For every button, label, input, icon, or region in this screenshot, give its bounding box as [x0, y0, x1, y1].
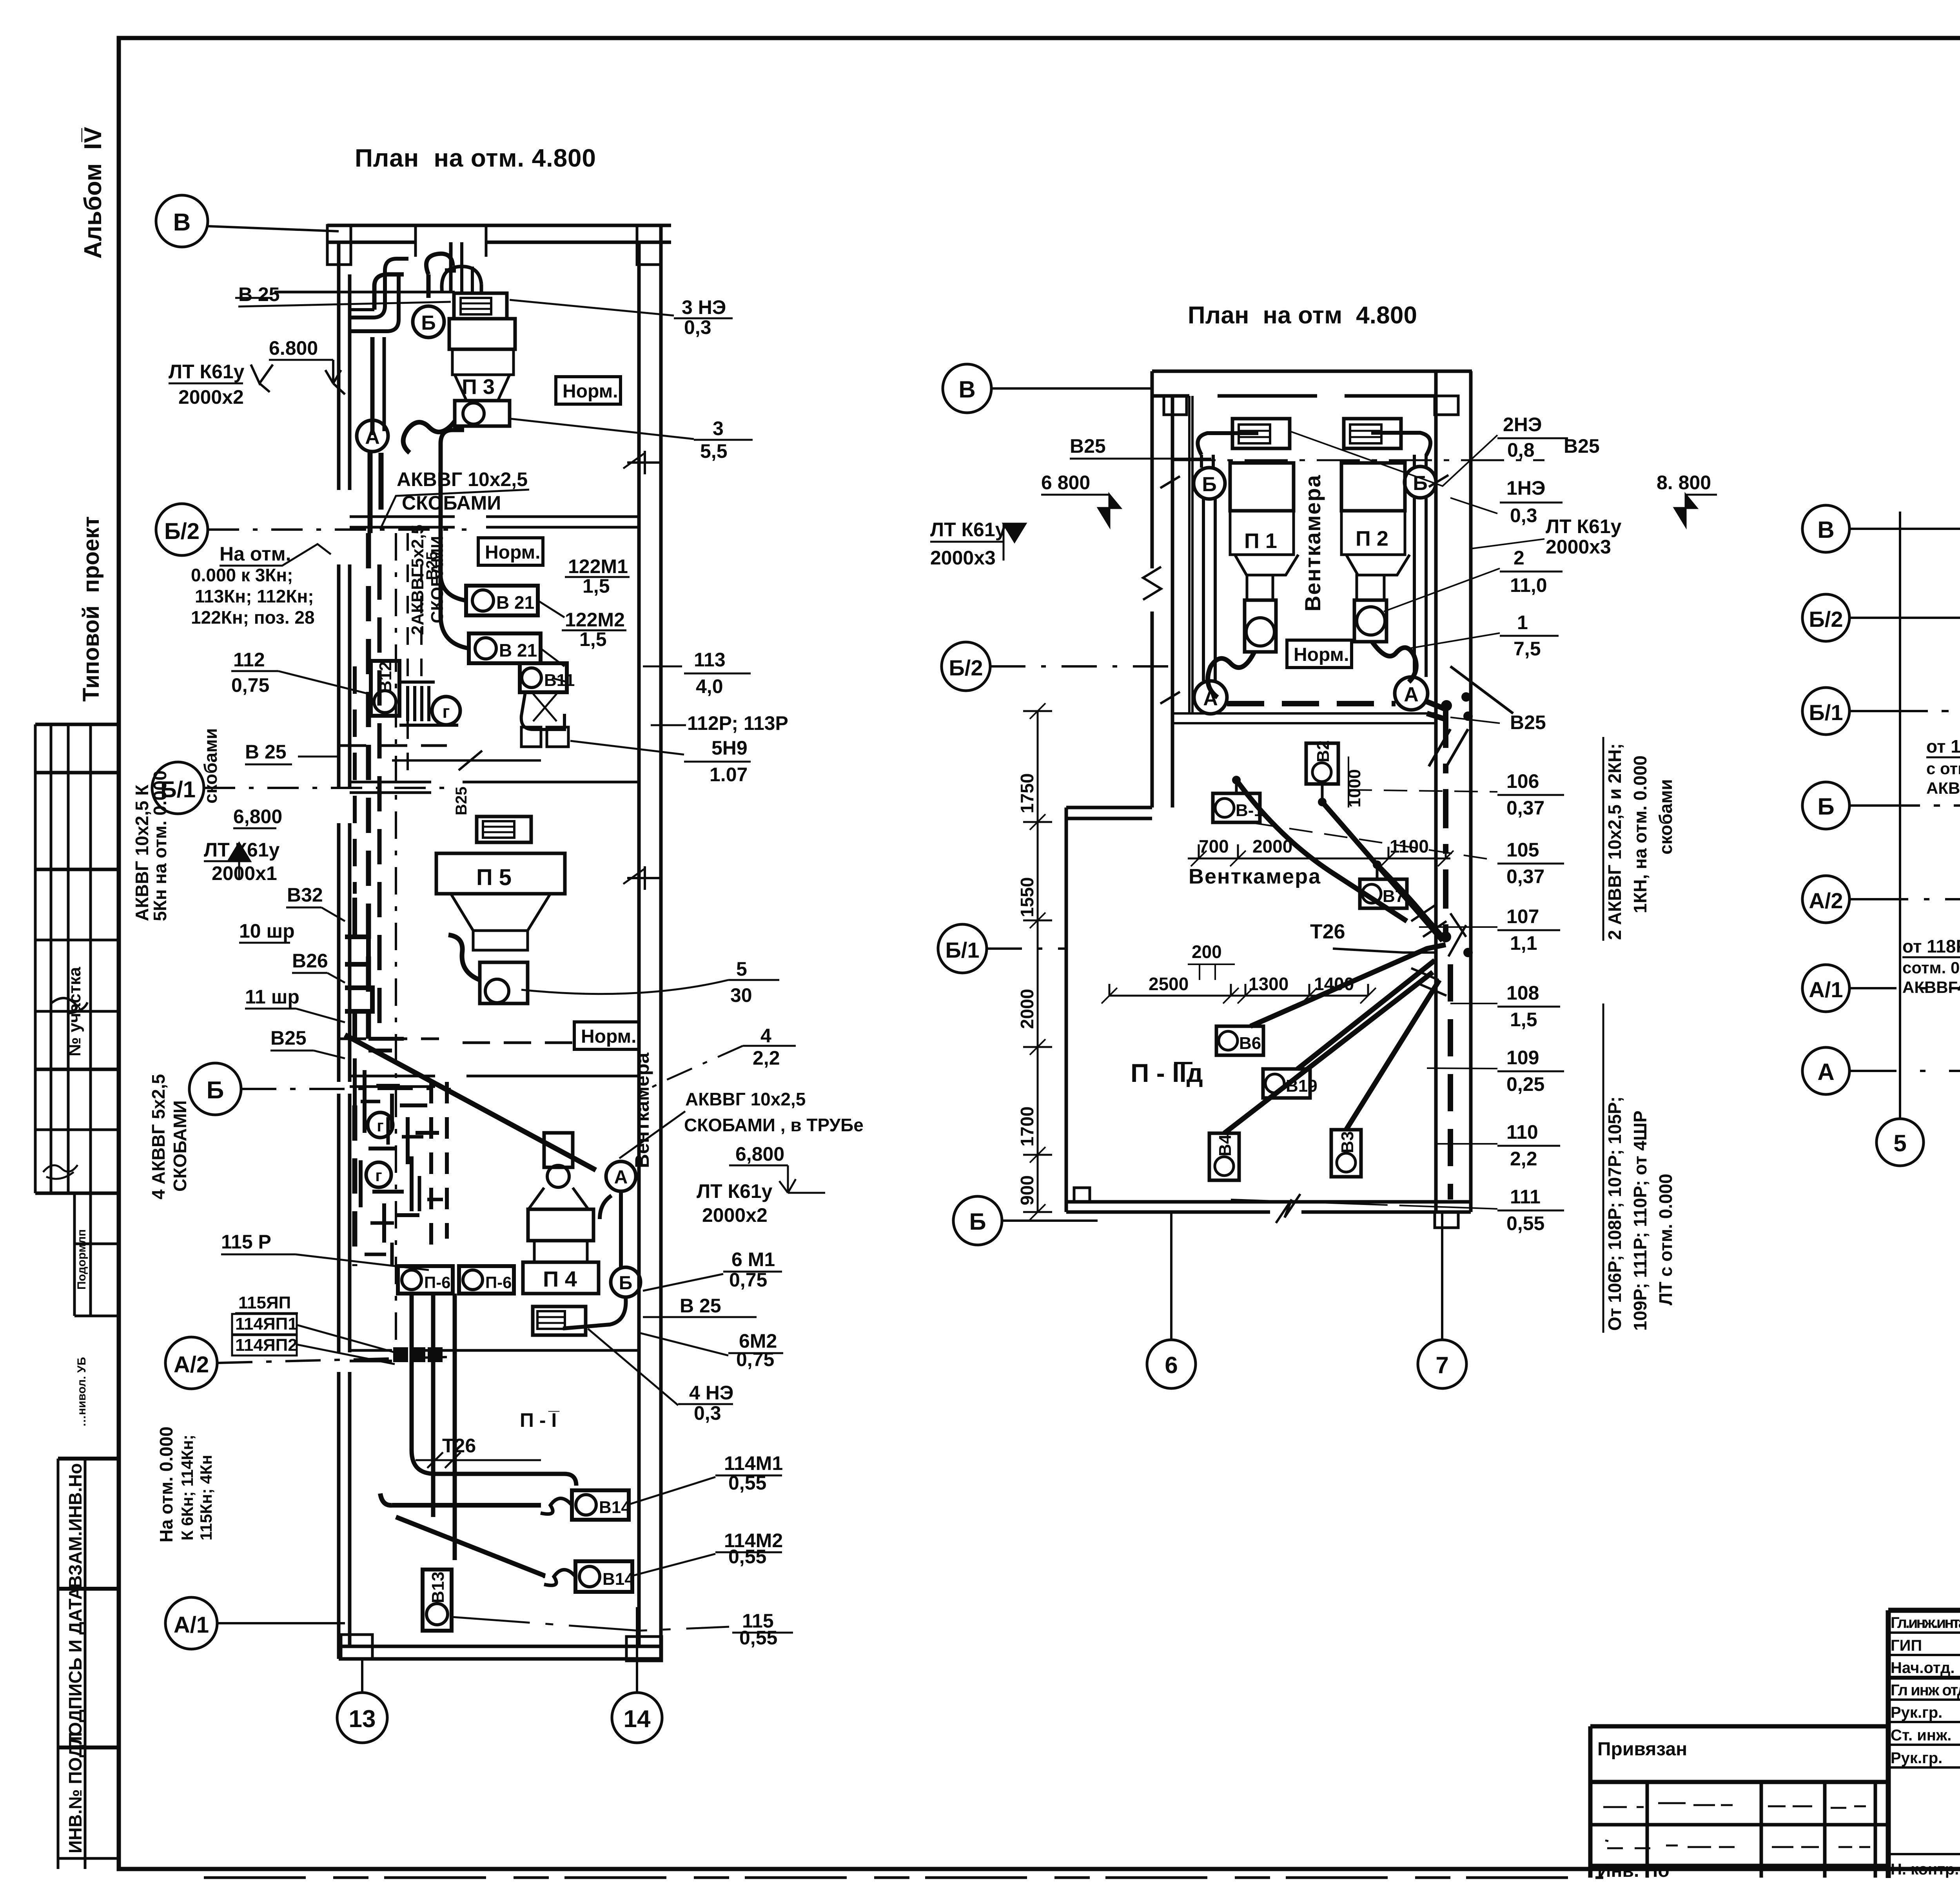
equip box V2 — [1306, 740, 1338, 806]
partition under A — [1172, 713, 1436, 723]
long diagonal cable — [345, 1035, 596, 1170]
svg-text:1,5: 1,5 — [579, 628, 607, 650]
svg-text:10 шр: 10 шр — [239, 920, 295, 942]
cable A-B risers at P4 — [563, 1191, 626, 1328]
svg-text:В25: В25 — [1510, 711, 1546, 733]
rotated margin captions — [65, 967, 85, 1853]
svg-text:В 25: В 25 — [680, 1295, 721, 1317]
svg-text:4: 4 — [760, 1025, 771, 1047]
thick cable run at A level — [1227, 702, 1446, 933]
dimension chain vertical — [1017, 703, 1058, 1294]
T26 dim — [416, 1452, 541, 1468]
svg-text:сотм. 0.000: сотм. 0.000 — [1902, 958, 1960, 977]
svg-text:3 НЭ: 3 НЭ — [682, 296, 726, 318]
axis circle 6 — [1147, 1212, 1196, 1388]
svg-text:ЛТ К61у: ЛТ К61у — [1546, 515, 1622, 537]
svg-text:от 118Р: от 118Р — [1902, 936, 1960, 956]
svg-text:А/2: А/2 — [174, 1352, 209, 1377]
svg-text:1550: 1550 — [1017, 877, 1037, 917]
svg-text:200: 200 — [1192, 942, 1222, 962]
left rotated notes — [132, 728, 221, 1542]
svg-text:2000: 2000 — [1017, 989, 1037, 1029]
svg-text:В 21: В 21 — [499, 640, 537, 660]
svg-text:13: 13 — [349, 1706, 376, 1733]
leader line 115 — [452, 1617, 729, 1631]
svg-text:2НЭ: 2НЭ — [1503, 414, 1542, 435]
cables in P-I room — [412, 1294, 576, 1560]
svg-text:ГИП: ГИП — [1891, 1637, 1922, 1654]
svg-text:Б/1: Б/1 — [946, 938, 980, 962]
svg-text:109Р; 111Р; 110Р; от 4ШР: 109Р; 111Р; 110Р; от 4ШР — [1630, 1110, 1650, 1331]
left wall — [339, 242, 350, 1659]
svg-text:0,55: 0,55 — [1506, 1212, 1544, 1234]
svg-text:8. 800: 8. 800 — [1657, 472, 1711, 494]
svg-text:г: г — [377, 1116, 384, 1135]
ROOF PLAN — [1802, 426, 1960, 1172]
svg-text:0,55: 0,55 — [739, 1627, 777, 1649]
svg-text:1700: 1700 — [1017, 1107, 1037, 1147]
dimension row upper — [1188, 836, 1454, 866]
main vertical cable runs — [355, 453, 433, 1517]
svg-text:112: 112 — [233, 649, 265, 671]
svg-text:2000х2: 2000х2 — [178, 386, 244, 408]
svg-text:В25: В25 — [270, 1027, 307, 1049]
dash-dot service line — [396, 533, 421, 1348]
axis circle B2 — [156, 504, 466, 555]
axis circle B2 — [1802, 594, 1849, 641]
building walls — [327, 225, 671, 1659]
svg-text:В25: В25 — [453, 787, 470, 815]
signature table rows — [1888, 1633, 1960, 1854]
svg-text:700: 700 — [1199, 836, 1229, 856]
svg-text:Б/2: Б/2 — [164, 519, 200, 544]
svg-text:0,37: 0,37 — [1506, 866, 1544, 887]
axis circle 7 — [1418, 1212, 1466, 1388]
svg-text:г: г — [442, 701, 450, 722]
svg-text:АКВВГ 10х2,5: АКВВГ 10х2,5 — [685, 1089, 806, 1109]
svg-text:115Кн; 4Кн: 115Кн; 4Кн — [197, 1455, 215, 1541]
riser circle G upper — [432, 697, 460, 725]
svg-text:6,800: 6,800 — [735, 1143, 784, 1165]
svg-text:П 2: П 2 — [1356, 527, 1388, 550]
svg-text:113Кн; 112Кн;: 113Кн; 112Кн; — [195, 586, 314, 606]
svg-text:114ЯП2: 114ЯП2 — [235, 1335, 298, 1355]
svg-text:1НЭ: 1НЭ — [1506, 477, 1546, 499]
plan2 title — [1188, 302, 1417, 329]
svg-text:Подормлп: Подормлп — [75, 1229, 88, 1290]
svg-text:105: 105 — [1506, 839, 1539, 861]
svg-text:2000х1: 2000х1 — [212, 862, 277, 884]
svg-text:А: А — [1203, 687, 1218, 710]
svg-text:А: А — [614, 1167, 628, 1188]
svg-text:П - I̅: П - I̅ — [520, 1409, 560, 1431]
svg-text:СКОБАМИ: СКОБАМИ — [170, 1100, 190, 1192]
axis circle A1 — [165, 1597, 345, 1649]
top wall — [1152, 371, 1472, 396]
svg-text:АКВВГ 10х2,5: АКВВГ 10х2,5 — [397, 468, 528, 490]
TITLE BLOCK — [1590, 1573, 1960, 1881]
axis circle B — [1802, 782, 1849, 829]
svg-text:Ст. инж.: Ст. инж. — [1891, 1727, 1951, 1744]
B25 horizontal runs — [235, 292, 572, 1043]
svg-text:Б: Б — [1202, 473, 1216, 496]
4B25 line — [392, 751, 541, 770]
svg-text:В 25: В 25 — [238, 283, 280, 305]
svg-text:П 5: П 5 — [476, 865, 512, 890]
svg-text:Привязан: Привязан — [1597, 1739, 1687, 1760]
svg-text:0,55: 0,55 — [728, 1546, 766, 1568]
svg-text:114ЯП1: 114ЯП1 — [235, 1314, 298, 1334]
corner blocks — [1164, 396, 1187, 415]
equip box V4 — [1209, 1133, 1239, 1180]
svg-text:В14: В14 — [603, 1570, 634, 1589]
svg-text:1КН, на отм. 0.000: 1КН, на отм. 0.000 — [1630, 755, 1650, 913]
svg-text:1: 1 — [1517, 611, 1528, 633]
svg-text:1400: 1400 — [1314, 974, 1354, 994]
title block outer box — [1888, 1610, 1960, 1878]
svg-text:А: А — [1404, 683, 1419, 706]
svg-text:В13: В13 — [428, 1571, 448, 1603]
AKVVG label top — [397, 468, 528, 514]
wire trunk dashed left — [370, 453, 381, 533]
svg-text:В14: В14 — [599, 1498, 631, 1517]
svg-text:2000х3: 2000х3 — [930, 547, 996, 569]
P-6 box 2 — [459, 1266, 514, 1294]
svg-text:6.800: 6.800 — [269, 337, 318, 359]
Ventkamera label lower — [1189, 865, 1321, 888]
vertical dim 1000 — [1345, 757, 1364, 811]
bottom small block — [1074, 1188, 1090, 1202]
rotated note right upper — [1604, 743, 1676, 940]
svg-text:1,5: 1,5 — [583, 575, 610, 597]
V12 box vertical — [371, 661, 399, 716]
right wall — [1436, 371, 1471, 1212]
svg-text:А/1: А/1 — [1809, 977, 1843, 1002]
svg-text:0,75: 0,75 — [231, 674, 269, 696]
interior partitions — [350, 517, 639, 527]
svg-text:Норм.: Норм. — [1294, 644, 1349, 665]
left labels — [930, 435, 1106, 569]
svg-text:В25: В25 — [1564, 435, 1600, 457]
axis circle B — [953, 1196, 1098, 1245]
svg-text:Н. контр.: Н. контр. — [1891, 1861, 1959, 1878]
svg-text:4 АКВВГ 5х2,5: 4 АКВВГ 5х2,5 — [148, 1074, 169, 1199]
svg-text:А/2: А/2 — [1809, 888, 1843, 913]
svg-text:7: 7 — [1436, 1352, 1448, 1378]
svg-text:скобами: скобами — [200, 728, 221, 804]
svg-text:2 АКВВГ 10х2,5 и 2КН;: 2 АКВВГ 10х2,5 и 2КН; — [1604, 743, 1625, 940]
svg-text:Венткамера: Венткамера — [1189, 865, 1321, 888]
extra cluster hatches — [361, 1101, 443, 1266]
riser circle B top — [413, 306, 444, 338]
riser A at P4 — [606, 1161, 636, 1191]
svg-text:В 21: В 21 — [496, 592, 534, 613]
axis circle 14 — [612, 1607, 662, 1743]
norm box top — [556, 377, 621, 404]
svg-text:Норм.: Норм. — [563, 381, 618, 402]
svg-text:Рук.гр.: Рук.гр. — [1891, 1749, 1942, 1767]
diagonal cable to V14-2 — [396, 1517, 545, 1576]
svg-text:2: 2 — [1514, 547, 1524, 569]
svg-text:Гл.инж.инта: Гл.инж.инта — [1891, 1614, 1960, 1631]
svg-text:П 4: П 4 — [543, 1267, 577, 1291]
equip box V3 — [1331, 1130, 1361, 1177]
cables to T26 node — [1224, 780, 1446, 1133]
svg-text:СКОБАМИ , в ТРУБе: СКОБАМИ , в ТРУБе — [684, 1115, 864, 1135]
svg-text:А/1: А/1 — [174, 1612, 209, 1638]
LEFT PLAN — [132, 144, 864, 1743]
svg-text:115 Р: 115 Р — [221, 1231, 271, 1253]
svg-text:АКВВГ4х2,5: АКВВГ4х2,5 — [1926, 779, 1960, 797]
equip box V7 — [1360, 860, 1407, 908]
svg-text:Норм.: Норм. — [485, 542, 541, 563]
svg-text:Б/2: Б/2 — [949, 655, 983, 680]
svg-text:5Кн на отм. 0.000: 5Кн на отм. 0.000 — [150, 770, 170, 921]
wavy cable P5 — [448, 935, 480, 980]
P3 fan stack — [449, 293, 515, 426]
P-6 box 1 — [398, 1266, 453, 1294]
axis circle B — [189, 1063, 451, 1115]
T26 fan ticks — [1411, 905, 1466, 996]
inner partition left of ventchamber — [1189, 396, 1192, 713]
LEFT MARGIN — [35, 127, 119, 1869]
svg-text:1.07: 1.07 — [710, 764, 748, 786]
right labels column — [1503, 414, 1711, 1234]
junction squares — [393, 1347, 443, 1362]
svg-text:2,2: 2,2 — [753, 1047, 780, 1069]
top left elbow cables — [350, 242, 481, 331]
svg-text:122М2: 122М2 — [565, 609, 625, 631]
left labels column — [169, 283, 328, 1355]
svg-text:0,3: 0,3 — [1510, 504, 1537, 526]
junction dots at A run — [1440, 692, 1473, 957]
right wall — [639, 225, 661, 1659]
svg-text:Б: Б — [1413, 472, 1427, 495]
riser circle B left — [1194, 468, 1225, 499]
svg-text:6: 6 — [1165, 1352, 1178, 1378]
svg-text:Т26: Т26 — [1310, 920, 1345, 943]
svg-text:0,3: 0,3 — [684, 316, 711, 338]
svg-text:Венткамера: Венткамера — [631, 1052, 653, 1168]
svg-text:122М1: 122М1 — [568, 555, 628, 577]
svg-text:110: 110 — [1506, 1121, 1538, 1143]
rotated note right lower — [1604, 1096, 1676, 1331]
fan unit P1 — [1208, 419, 1298, 697]
svg-text:В32: В32 — [287, 884, 323, 906]
svg-text:5,5: 5,5 — [700, 440, 728, 462]
svg-text:7,5: 7,5 — [1514, 638, 1541, 660]
column axis circles — [1877, 1119, 1960, 1166]
svg-text:В25: В25 — [1070, 435, 1106, 457]
svg-text:106: 106 — [1506, 770, 1539, 792]
svg-text:П-6: П-6 — [485, 1273, 512, 1292]
bottom wall — [1066, 1202, 1471, 1212]
svg-text:2000х2: 2000х2 — [702, 1204, 768, 1226]
svg-text:Рук.гр.: Рук.гр. — [1891, 1704, 1942, 1721]
riser cable pairs — [1198, 433, 1430, 681]
svg-text:0,37: 0,37 — [1506, 797, 1544, 819]
svg-text:5: 5 — [1893, 1130, 1906, 1156]
axis circle A — [1802, 1047, 1849, 1094]
svg-text:107: 107 — [1506, 905, 1539, 927]
norm box 2 — [478, 538, 543, 565]
svg-text:От 106Р; 108Р; 107Р; 105Р;: От 106Р; 108Р; 107Р; 105Р; — [1604, 1096, 1625, 1331]
svg-text:115ЯП: 115ЯП — [238, 1293, 291, 1312]
svg-text:4 НЭ: 4 НЭ — [689, 1382, 733, 1404]
svg-text:108: 108 — [1506, 982, 1539, 1004]
equip box V6 — [1216, 1026, 1263, 1055]
margin table upper grid — [35, 724, 119, 1316]
svg-text:2000х3: 2000х3 — [1546, 536, 1611, 558]
plan1 title — [355, 144, 596, 172]
svg-text:ВЗАМ.ИНВ.Но: ВЗАМ.ИНВ.Но — [65, 1463, 85, 1588]
V5 labels — [1902, 840, 1960, 996]
P4 fan stack — [523, 1133, 599, 1335]
svg-text:ЛТ К61у: ЛТ К61у — [930, 519, 1006, 541]
top cable hooks — [351, 254, 456, 435]
equip box V19 — [1263, 1069, 1318, 1098]
rotated 2AKVVG note — [408, 524, 653, 1168]
top column caps — [327, 225, 351, 265]
svg-text:Б: Б — [969, 1208, 986, 1235]
svg-text:В26: В26 — [292, 950, 328, 972]
svg-text:На отм.: На отм. — [220, 543, 291, 565]
cross ties on walls — [1160, 475, 1448, 704]
svg-text:Норм.: Норм. — [581, 1026, 637, 1047]
riser circle B right — [1405, 466, 1436, 498]
V13 box vertical — [423, 1570, 452, 1631]
svg-text:с отм.0.000: с отм.0.000 — [1926, 759, 1960, 778]
axis circle B2 — [942, 642, 1172, 691]
svg-text:1,1: 1,1 — [1510, 932, 1537, 954]
svg-text:скобами: скобами — [1655, 779, 1676, 855]
svg-text:В2: В2 — [1314, 740, 1333, 762]
svg-text:В4: В4 — [1216, 1134, 1235, 1156]
G cluster circles — [368, 1112, 393, 1138]
wavy cable P3 to A — [403, 421, 455, 453]
svg-text:В3: В3 — [1338, 1131, 1357, 1153]
B riser hooks mid — [345, 898, 372, 1039]
svg-text:114М1: 114М1 — [724, 1452, 783, 1474]
cable to V14-1 — [380, 1493, 541, 1505]
riser circle A left — [1194, 681, 1227, 714]
P-IId room label — [1131, 1058, 1203, 1087]
axis circle A1 — [1802, 965, 1849, 1012]
svg-text:122Кн; поз. 28: 122Кн; поз. 28 — [191, 607, 315, 628]
svg-text:4,0: 4,0 — [696, 675, 723, 697]
svg-text:2,2: 2,2 — [1510, 1148, 1537, 1170]
svg-text:0,75: 0,75 — [736, 1348, 774, 1370]
svg-text:112Р; 113Р: 112Р; 113Р — [687, 712, 788, 734]
project type label rotated — [78, 516, 104, 702]
margin small rotated notes — [75, 1229, 88, 1427]
slash ticks near A right — [1429, 666, 1513, 766]
svg-text:В25: В25 — [423, 552, 441, 580]
axis dash line through B risers — [1172, 459, 1544, 461]
svg-text:ЛТ К61у: ЛТ К61у — [169, 361, 245, 383]
svg-text:В: В — [173, 209, 191, 236]
svg-text:П-6: П-6 — [424, 1273, 451, 1292]
album label rotated — [80, 127, 107, 259]
axis circle V — [1802, 505, 1849, 552]
bottom wall — [339, 1646, 661, 1659]
svg-text:Б/2: Б/2 — [1809, 607, 1843, 631]
T26 label — [1310, 920, 1345, 943]
svg-text:Б: Б — [1817, 793, 1834, 820]
svg-text:План на отм. 4.800: План на отм. 4.800 — [355, 144, 596, 172]
axis circle V — [943, 364, 1152, 413]
svg-text:5Н9: 5Н9 — [711, 737, 748, 759]
top wall — [327, 225, 671, 242]
svg-text:Нач.отд.: Нач.отд. — [1891, 1659, 1955, 1677]
V21 box 1 — [466, 586, 538, 615]
horizontal axis lines — [1849, 529, 1960, 1071]
equip box V-1 — [1213, 776, 1263, 822]
dimension row lower — [1102, 942, 1376, 1003]
vertical column lines — [1900, 512, 1960, 1119]
svg-text:1750: 1750 — [1017, 773, 1037, 813]
svg-text:Типовой проект: Типовой проект — [78, 516, 104, 702]
left wall upper — [1152, 371, 1172, 807]
svg-text:2500: 2500 — [1149, 974, 1189, 994]
V14 box 2 — [544, 1561, 634, 1592]
svg-text:11,0: 11,0 — [1510, 574, 1547, 596]
building walls — [341, 371, 1472, 1661]
svg-text:от 116Р: от 116Р — [1926, 736, 1960, 757]
norm box 3 — [574, 1022, 639, 1049]
fraction bars right plan1 — [562, 318, 825, 1633]
riser B at P4 — [611, 1267, 641, 1297]
svg-text:В: В — [1817, 517, 1834, 543]
svg-text:ПОДПИСЬ И ДАТА: ПОДПИСЬ И ДАТА — [65, 1587, 85, 1749]
svg-text:0,3: 0,3 — [694, 1402, 721, 1424]
svg-text:Альбом IV̅: Альбом IV̅ — [80, 127, 107, 259]
svg-text:2000: 2000 — [1252, 836, 1292, 856]
svg-text:…нивол. УБ: …нивол. УБ — [75, 1357, 88, 1427]
svg-text:ЛТ с отм. 0.000: ЛТ с отм. 0.000 — [1655, 1174, 1676, 1305]
margin table lower grid — [58, 1459, 119, 1869]
svg-text:6,800: 6,800 — [233, 806, 282, 827]
svg-text:11 шр: 11 шр — [245, 986, 299, 1008]
svg-text:А: А — [1817, 1059, 1834, 1085]
axis circle A2 — [165, 1337, 447, 1389]
svg-text:0,25: 0,25 — [1506, 1073, 1544, 1095]
cable along right wall lower — [1448, 964, 1453, 1199]
hatch cluster at G — [399, 682, 458, 725]
leaders right plan1 — [510, 300, 743, 1576]
svg-text:111: 111 — [1510, 1186, 1541, 1208]
wall ticks — [627, 451, 662, 890]
privyazan table — [1590, 1726, 1888, 1881]
axis circle A2 — [1802, 876, 1849, 923]
svg-text:Венткамера: Венткамера — [1300, 474, 1325, 611]
svg-text:В6: В6 — [1239, 1034, 1261, 1053]
Norm box — [1287, 640, 1352, 668]
axis circle B1 — [938, 924, 1066, 973]
svg-text:г: г — [375, 1166, 382, 1185]
V15 labels — [1926, 650, 1960, 797]
column blocks at bottom wall — [341, 1635, 372, 1659]
svg-text:5: 5 — [736, 958, 747, 980]
fan unit P2 — [1341, 419, 1416, 682]
left wall step — [1066, 807, 1152, 1212]
svg-text:Б/1: Б/1 — [1809, 700, 1843, 725]
svg-text:В 25: В 25 — [245, 741, 287, 763]
svg-text:АКВВГ 10х2,5 К: АКВВГ 10х2,5 К — [132, 784, 152, 921]
right labels column plan1 — [442, 296, 864, 1649]
svg-text:3: 3 — [713, 417, 724, 439]
svg-text:К 6Кн; 114Кн;: К 6Кн; 114Кн; — [178, 1435, 196, 1541]
